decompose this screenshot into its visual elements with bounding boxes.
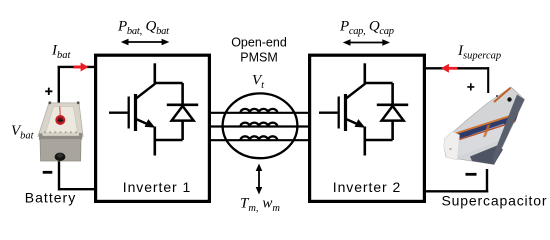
- IGBT Q1 of inverter 1: [109, 63, 198, 155]
- wire battery bottom vertical: [58, 159, 60, 190]
- minus sign battery: [43, 171, 53, 174]
- supercap photo: silver face: [450, 122, 515, 156]
- battery photo: hole row: [44, 131, 78, 133]
- winding coil a: [241, 109, 278, 113]
- torque/speed double arrow: [256, 164, 263, 195]
- supercap photo: connector dot: [507, 97, 511, 101]
- supercap photo: SIRIUS text hint: [472, 125, 504, 136]
- inverter 1 box: [96, 55, 210, 201]
- wire supercap bottom vertical: [486, 169, 488, 193]
- supercap photo: orange stripe 2: [450, 121, 516, 144]
- battery photo: top face: [38, 103, 83, 136]
- wire supercap bottom horizontal: [425, 190, 489, 192]
- supercap photo: dark right wedge: [493, 95, 525, 165]
- plus sign battery: [45, 88, 52, 95]
- battery photo: connector: [55, 153, 66, 161]
- supercap photo: orange swoosh: [483, 124, 491, 137]
- winding coil c: [241, 136, 278, 140]
- battery photo: red line: [59, 107, 61, 116]
- red arrow I bat: [74, 63, 89, 72]
- double arrow P bat: [121, 39, 170, 46]
- motor stator circle: [223, 93, 298, 158]
- wire battery top horizontal: [58, 66, 96, 68]
- svg-text:Supercapacitor: Supercapacitor: [442, 193, 547, 209]
- phase line b: [210, 125, 310, 127]
- svg-text:Inverter 2: Inverter 2: [333, 179, 401, 195]
- supercap photo: far edge orange tip: [494, 88, 511, 102]
- battery photo: screws: [48, 101, 51, 104]
- svg-text:Inverter 1: Inverter 1: [123, 179, 191, 195]
- winding coil b: [241, 123, 278, 127]
- wire battery bottom horizontal: [58, 188, 95, 190]
- wire supercap top vertical: [487, 67, 489, 93]
- supercap photo: orange stripe 1: [451, 112, 519, 136]
- supercap photo: silhouette base / top face: [444, 87, 525, 165]
- battery photo: front shadow: [40, 137, 80, 140]
- IGBT Q2 of inverter 2: [319, 63, 408, 155]
- battery photo: front face: [40, 136, 81, 161]
- plus sign supercap: [467, 83, 474, 90]
- phase line a: [210, 112, 310, 114]
- supercap photo: end face screw: [449, 148, 451, 150]
- minus sign supercap: [466, 173, 477, 176]
- wire battery top vertical: [58, 66, 60, 104]
- wire supercap top horizontal: [425, 67, 489, 69]
- battery photo: logo: [55, 115, 65, 125]
- inverter 2 box: [310, 55, 425, 201]
- svg-text:Battery: Battery: [25, 190, 76, 206]
- battery photo: top panel: [46, 107, 78, 134]
- svg-text:Open-end: Open-end: [231, 36, 287, 50]
- supercap photo: dark bottom strip: [470, 146, 503, 165]
- supercap photo: white end face: [444, 132, 460, 161]
- double arrow P cap: [343, 39, 390, 46]
- battery photo: side tabs: [39, 133, 42, 140]
- red arrow I supercap: [441, 64, 457, 73]
- svg-text:PMSM: PMSM: [240, 51, 278, 65]
- phase line c: [210, 139, 310, 141]
- supercap photo: navy band: [450, 114, 518, 142]
